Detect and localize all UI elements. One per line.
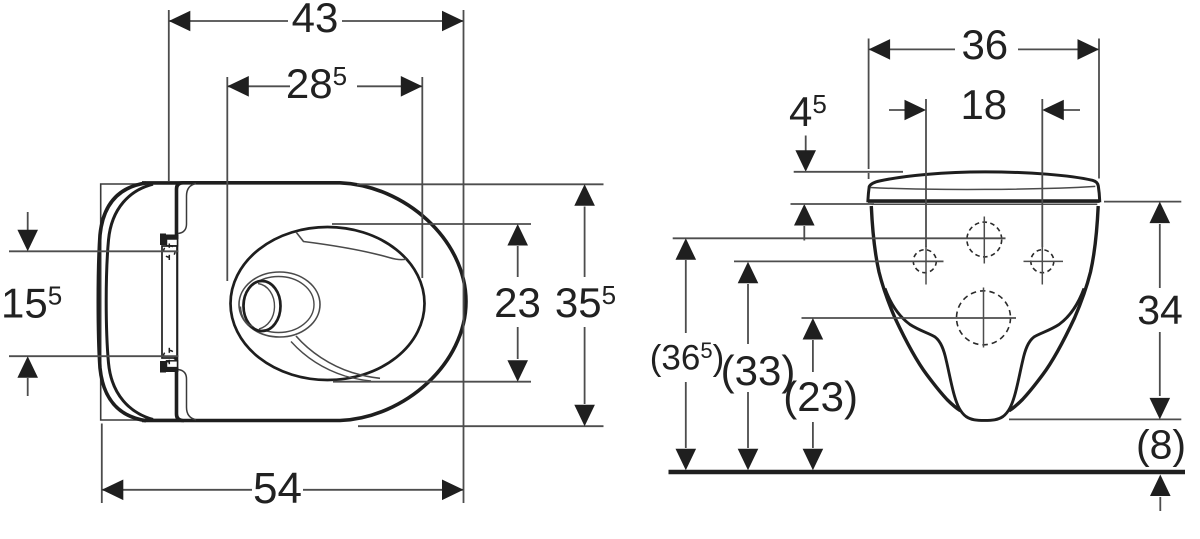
dimension 35.5 arrowhead bottom: [574, 405, 595, 427]
vertical hole line right (18): [1041, 99, 1043, 247]
dimension 18 left arrow: [889, 109, 906, 111]
seat gap line near hinge bottom: [178, 370, 196, 420]
reference line 34 bottom: [1009, 418, 1181, 420]
svg-text:(365): (365): [650, 338, 725, 378]
dimension 43 arrowhead left: [169, 11, 191, 32]
dimension 35.5 extension line top: [357, 183, 604, 185]
seat outline (top view): [177, 183, 467, 421]
dimension 36 arrowhead left: [869, 39, 891, 60]
dimension 28.5 line: [227, 85, 290, 87]
dimension (23) line: [812, 340, 814, 372]
dimension 34 arrowhead bottom: [1150, 398, 1171, 420]
ceramic top thin line: [872, 203, 1098, 205]
hole left small (dashed): [913, 250, 936, 273]
dimension 28.5 arrowhead left: [227, 76, 249, 97]
hole bottom centre large (dashed): [957, 291, 1011, 345]
dimension 43 arrowhead right: [442, 11, 464, 32]
wall plate rectangle (thin): [101, 184, 143, 420]
bowl silhouette right: [1009, 206, 1098, 411]
dimension 15.5 top arrow: [27, 212, 29, 230]
bowl silhouette left: [871, 206, 960, 411]
hole right small (dashed): [1031, 250, 1054, 273]
floor line: [669, 470, 1186, 475]
dimension 43 extension line left: [168, 10, 170, 181]
dimension 4.5 down arrow: [805, 136, 807, 152]
dimension 54 line: [102, 489, 252, 491]
reference line 34 top: [1104, 201, 1181, 203]
dimension 23 line: [517, 246, 519, 277]
dimension 15.5 reference line top: [9, 250, 179, 252]
channel line lower: [291, 342, 371, 382]
reference line (23): [802, 317, 1017, 319]
dimension (33) arrowhead top: [738, 262, 759, 284]
dimension 34 arrowhead top: [1150, 202, 1171, 224]
svg-text:(23): (23): [783, 373, 858, 420]
dimension 15.5 reference line bottom: [9, 355, 179, 357]
dimension 4.5 pointer line bottom: [791, 203, 875, 205]
svg-text:23: 23: [494, 279, 541, 326]
reference line (36.5): [673, 237, 1006, 239]
seat/ceramic top edge segment: [142, 181, 184, 185]
dimension (36.5) arrowhead top: [676, 238, 697, 259]
dimension 54 arrowhead right: [442, 480, 464, 501]
fastening point bottom (crosshair): [164, 348, 176, 364]
hole top centre (dashed): [967, 222, 1002, 257]
small arc below drain: [241, 307, 253, 327]
dimension 35.5 line: [584, 207, 586, 278]
lid outline (front view): [868, 172, 1100, 201]
dimension 15.5 bottom arrow: [27, 378, 29, 396]
dimension 43 line: [169, 20, 288, 22]
dimension 4.5 pointer line top: [794, 171, 903, 173]
drain hole: [244, 281, 281, 331]
dimension 36 arrowhead right: [1078, 39, 1100, 60]
lid inner thin line: [870, 186, 1095, 189]
dimension (36.5) line: [685, 260, 687, 333]
hinge block top: [160, 235, 179, 240]
dimension (23) arrowhead bottom: [803, 449, 824, 471]
channel line upper: [296, 336, 380, 378]
dimension 35.5 arrowhead top: [574, 184, 595, 206]
svg-text:(8): (8): [1136, 422, 1186, 468]
fastening point top (crosshair): [164, 244, 176, 261]
dimension 36 extension line right: [1098, 39, 1100, 179]
bowl crease and outlet nose: [885, 288, 1084, 420]
inner rim top curve: [296, 232, 406, 260]
shared extension line right (43/54): [463, 10, 465, 503]
svg-text:36: 36: [961, 21, 1008, 68]
hinge block bottom: [160, 368, 179, 373]
dimension 23 extension line bottom: [333, 381, 531, 383]
dimension 54 arrowhead left: [102, 480, 124, 501]
bowl body fill: [871, 206, 1098, 420]
drain outer oval: [239, 272, 320, 337]
dimension 28.5 arrowhead right: [401, 76, 423, 97]
ceramic back outer curve: [98, 183, 146, 421]
dimension 35.5 extension line bottom: [358, 425, 604, 427]
drain inner oval: [243, 277, 314, 333]
vertical hole line left (18): [925, 99, 927, 247]
svg-text:54: 54: [253, 464, 302, 513]
dimension 28.5 extension line right: [421, 77, 423, 278]
dimension 28.5 extension line left: [226, 77, 228, 281]
svg-text:43: 43: [292, 0, 339, 41]
dimension (8) up arrow below floor: [1159, 497, 1161, 511]
drain hole inner arc: [258, 284, 275, 330]
seat gap line near hinge top: [178, 184, 196, 234]
bowl rim ellipse: [231, 227, 425, 380]
hinge mounting plate: [162, 246, 177, 358]
dimension 36 extension line left: [868, 39, 870, 164]
dimension (36.5) arrowhead bottom: [676, 449, 697, 471]
dimension (23) arrowhead top: [803, 318, 824, 340]
svg-text:34: 34: [1137, 287, 1183, 333]
ceramic back inner curve: [106, 184, 153, 419]
dimension 36 line: [869, 48, 955, 50]
seat bottom thick line: [868, 199, 1100, 202]
dimension 4.5 up arrow: [803, 226, 805, 241]
dimension 18 right arrow: [1063, 109, 1080, 111]
dimension 23 arrowhead bottom: [507, 360, 528, 382]
dimension (33) arrowhead bottom: [738, 449, 759, 471]
dimension 23 extension line top: [332, 223, 531, 225]
seat/ceramic bottom edge segment: [142, 419, 184, 423]
svg-text:18: 18: [960, 81, 1007, 128]
dimension 34 line: [1159, 224, 1161, 288]
reference line (33): [734, 260, 944, 262]
dimension 23 arrowhead top: [507, 224, 528, 246]
dimension 54 extension line left: [101, 424, 103, 504]
dimension (33) line: [747, 284, 749, 344]
